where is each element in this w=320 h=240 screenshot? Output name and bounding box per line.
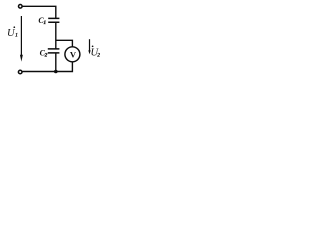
terminal top-left [19,5,23,9]
capacitor C2 [48,49,60,53]
svg-text:1: 1 [15,33,18,39]
voltmeter V1 circle [65,47,80,62]
wire branch to voltmeter [56,40,73,47]
svg-text:2: 2 [97,52,100,58]
terminal bottom-left [18,70,22,74]
wire C1 to C2 [55,23,57,49]
wire voltmeter to bottom [22,62,72,72]
wire top [22,6,55,18]
arrowhead U1 [20,55,23,62]
arrowhead U2 [88,50,90,54]
svg-text:1: 1 [43,20,46,26]
arrow U2 [89,39,91,51]
wire C2 to bottom [55,54,57,72]
junction node [54,70,58,74]
svg-text:2: 2 [44,52,48,58]
svg-text:V: V [70,50,77,60]
arrow U1 [20,16,22,55]
capacitor C1 [48,18,59,22]
